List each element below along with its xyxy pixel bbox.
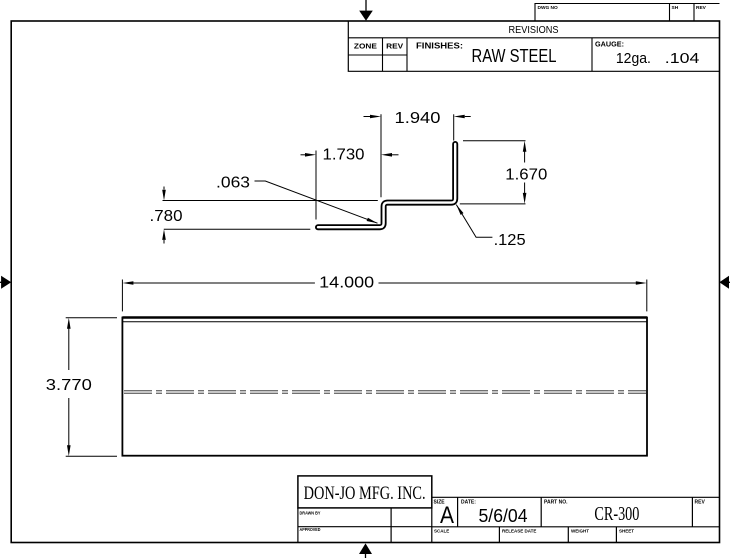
svg-text:PART NO.: PART NO. xyxy=(544,499,568,505)
svg-text:5/6/04: 5/6/04 xyxy=(479,506,528,526)
centerline xyxy=(124,391,646,393)
date label and value xyxy=(461,499,528,525)
left center mark xyxy=(0,276,11,289)
svg-text:.780: .780 xyxy=(150,208,183,225)
svg-text:.125: .125 xyxy=(494,232,526,249)
title block left rows xyxy=(298,508,432,543)
leader .063 xyxy=(216,174,378,223)
svg-text:REV: REV xyxy=(386,42,403,51)
svg-text:GAUGE:: GAUGE: xyxy=(595,40,624,49)
svg-text:DRAWN BY: DRAWN BY xyxy=(300,511,321,516)
svg-text:3.770: 3.770 xyxy=(46,377,92,394)
svg-text:12ga.: 12ga. xyxy=(616,51,651,67)
revisions table xyxy=(348,21,719,71)
dimension 1.670 xyxy=(460,141,548,204)
svg-text:14.000: 14.000 xyxy=(319,275,374,292)
svg-text:ZONE: ZONE xyxy=(354,42,377,51)
svg-text:REVISIONS: REVISIONS xyxy=(509,25,559,36)
svg-text:DWG NO: DWG NO xyxy=(538,5,559,11)
svg-text:SH: SH xyxy=(672,5,679,11)
right center mark xyxy=(719,276,730,289)
svg-text:SHEET: SHEET xyxy=(619,528,634,533)
svg-text:REV: REV xyxy=(695,499,706,505)
svg-text:RAW STEEL: RAW STEEL xyxy=(472,45,557,66)
part no label and value CR-300 xyxy=(544,499,639,525)
dimension 1.730 xyxy=(301,147,399,220)
profile cross-section sheet xyxy=(318,144,455,227)
title block right grid xyxy=(432,497,720,542)
svg-text:1.940: 1.940 xyxy=(395,110,441,127)
svg-text:REV: REV xyxy=(696,5,707,11)
title block don-jo box xyxy=(298,476,432,508)
leader .125 xyxy=(456,205,525,250)
svg-text:.063: .063 xyxy=(216,174,250,191)
svg-text:1.670: 1.670 xyxy=(505,167,547,184)
plan view rectangle xyxy=(122,318,647,456)
svg-text:APPROVED: APPROVED xyxy=(300,527,322,532)
svg-text:1.730: 1.730 xyxy=(323,147,365,164)
svg-text:DON-JO MFG. INC.: DON-JO MFG. INC. xyxy=(304,483,426,504)
svg-text:SCALE: SCALE xyxy=(434,528,449,533)
dimension .780 xyxy=(150,187,378,244)
svg-text:FINISHES:: FINISHES: xyxy=(416,42,463,51)
top center mark xyxy=(359,0,373,21)
bottom center mark xyxy=(359,543,372,558)
svg-text:A: A xyxy=(440,502,454,529)
svg-text:WEIGHT: WEIGHT xyxy=(571,528,589,533)
top-right dwg-no box xyxy=(535,4,720,22)
dimension 14.000 xyxy=(122,275,646,312)
size label and value xyxy=(434,499,455,529)
svg-text:CR-300: CR-300 xyxy=(594,503,639,525)
svg-text:DATE:: DATE: xyxy=(461,499,476,505)
svg-text:RELEASE DATE: RELEASE DATE xyxy=(502,528,536,533)
svg-text:.104: .104 xyxy=(665,51,700,67)
dimension 3.770 xyxy=(46,318,117,456)
dimension 1.940 xyxy=(364,110,471,197)
